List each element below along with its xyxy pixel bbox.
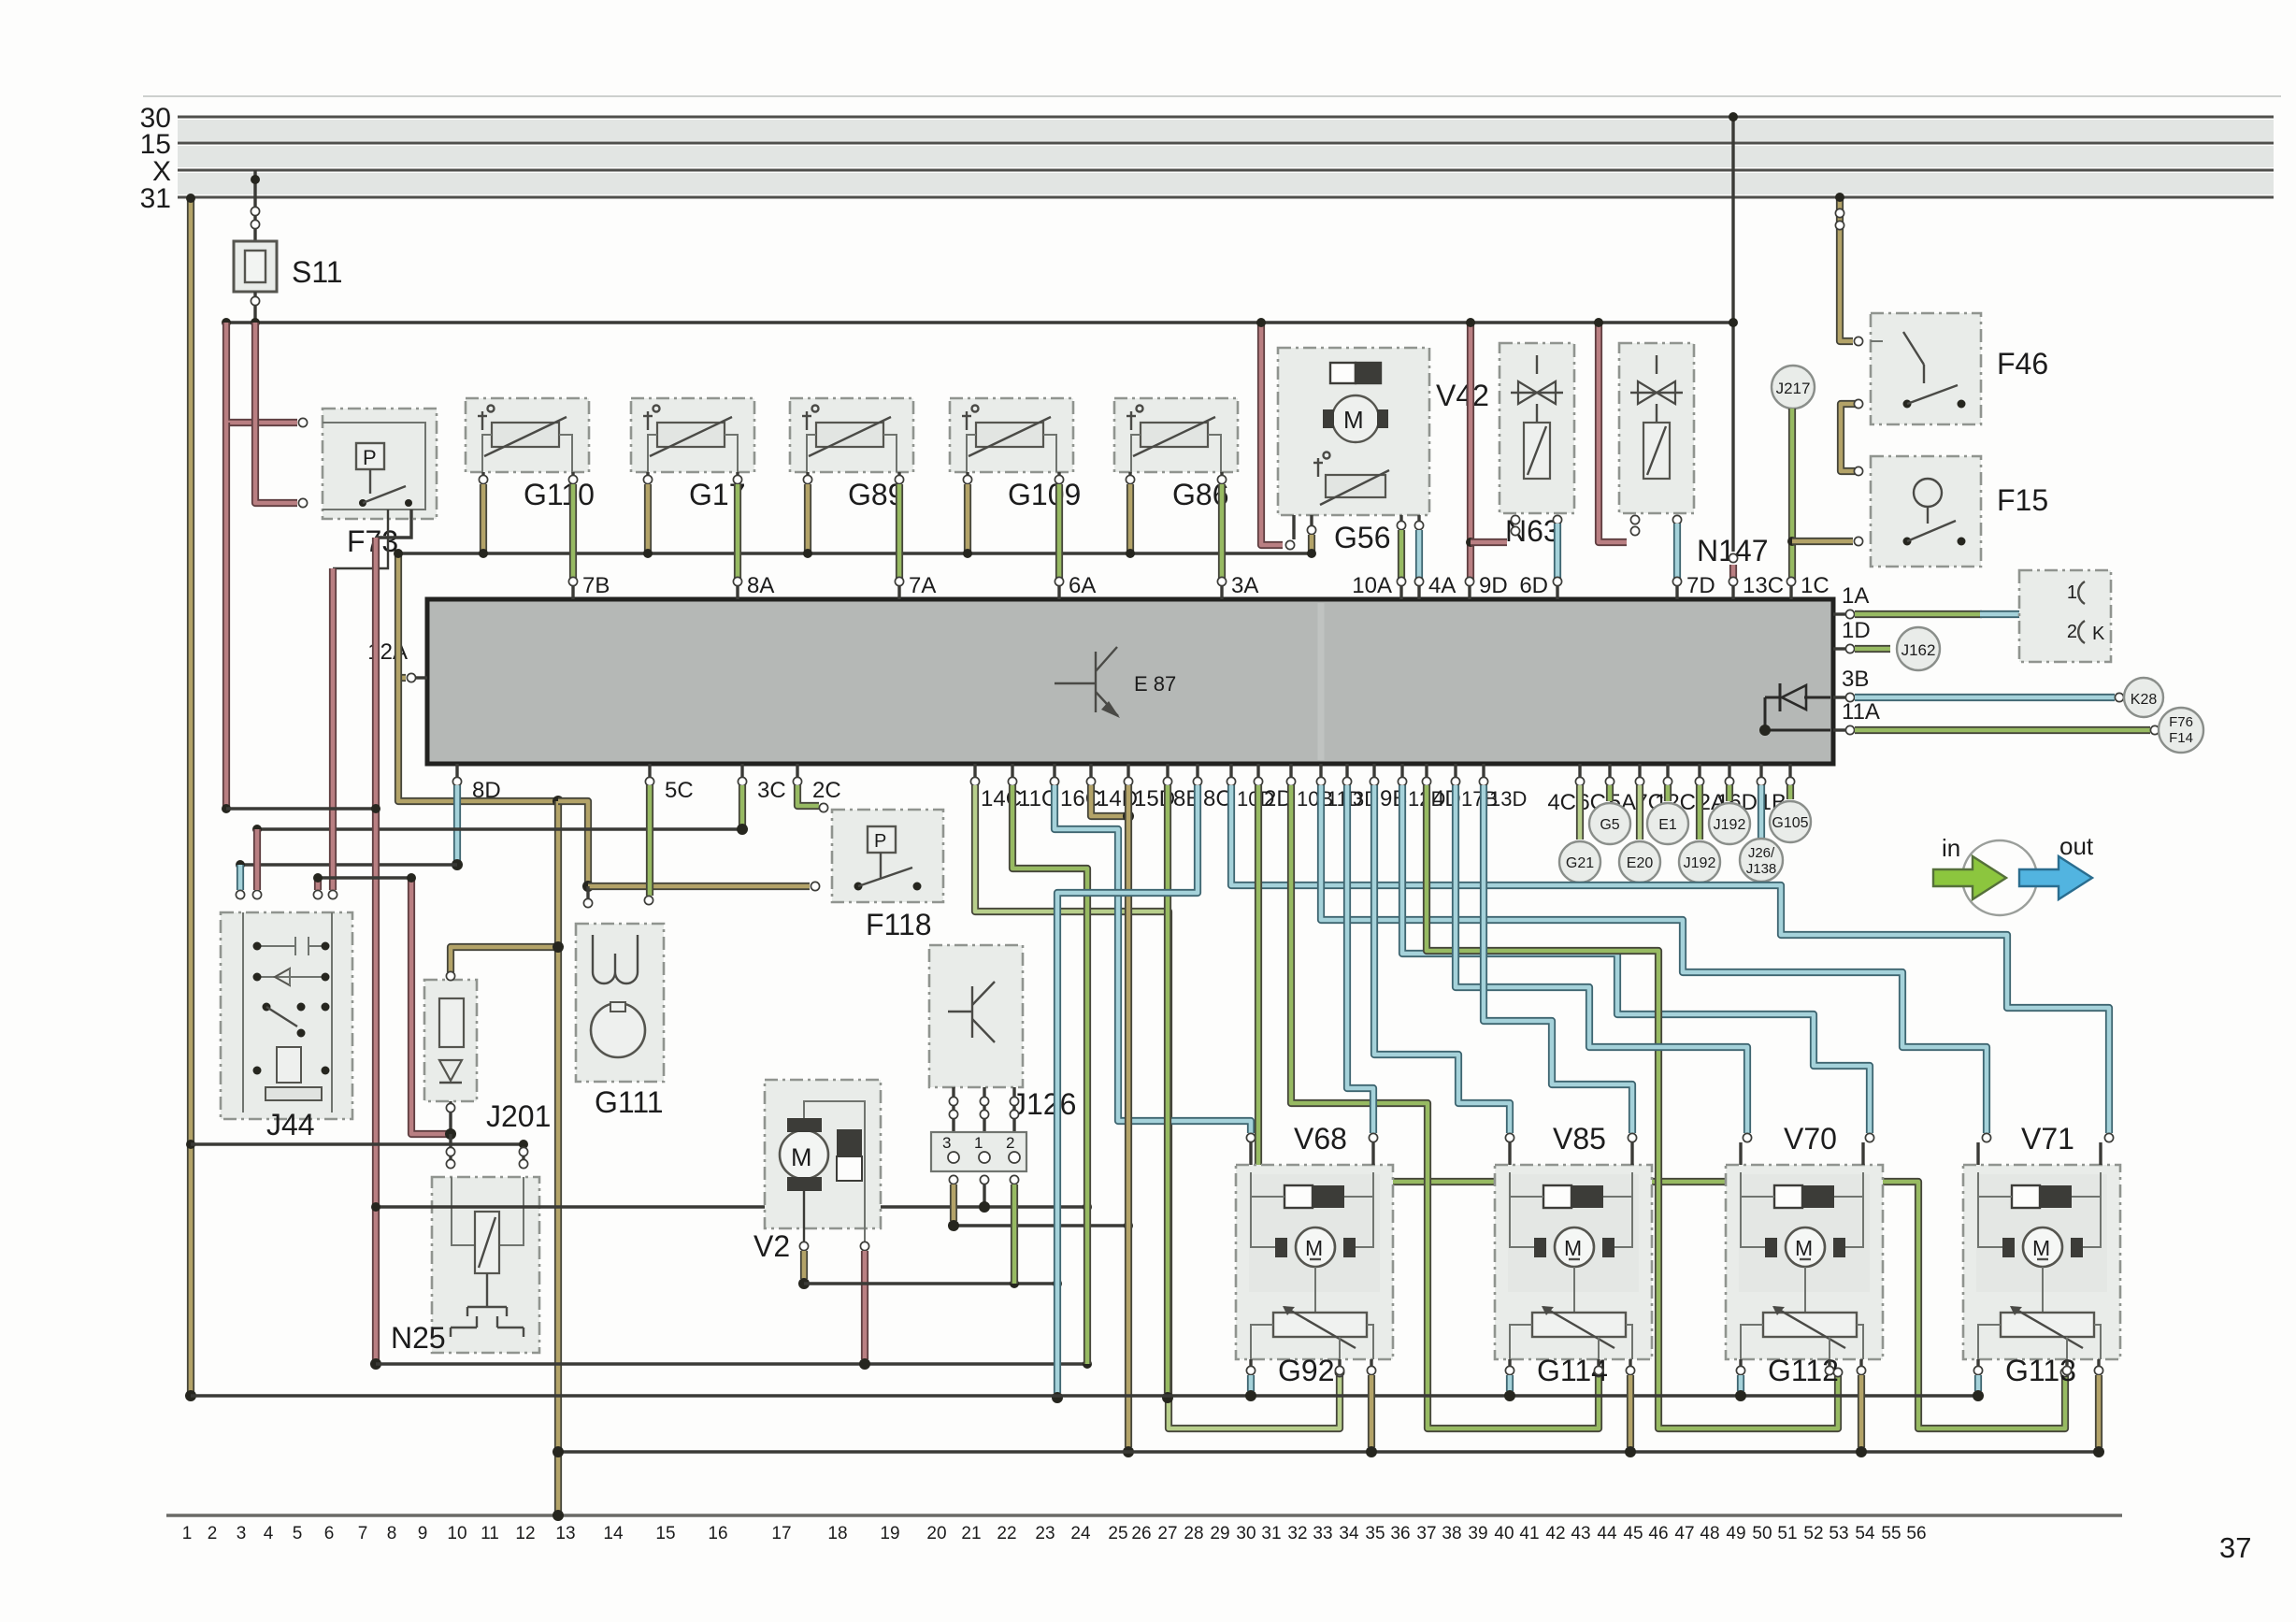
svg-text:19: 19	[880, 1524, 899, 1543]
wire 8C cyan down-left-down to rail1	[1057, 785, 1198, 1393]
svg-text:7D: 7D	[1686, 573, 1715, 598]
wire N63 right cyan to 6D	[1553, 515, 1561, 524]
wire V2 right maroon to y1459	[860, 1242, 868, 1250]
node 30 bus	[1729, 112, 1738, 122]
node L1 right	[371, 804, 380, 813]
wire red S11 to F73 pin2	[255, 323, 297, 503]
connector plug K box	[2019, 570, 2111, 662]
pin 12D bottom	[1400, 764, 1403, 778]
wire J126-2 green	[1010, 1175, 1018, 1184]
switch F46	[1871, 313, 1981, 424]
svg-text:M: M	[1564, 1236, 1582, 1260]
svg-text:52: 52	[1803, 1524, 1823, 1543]
terminal circle G21	[1576, 785, 1584, 840]
terminal circle G5	[1606, 785, 1614, 801]
wire red to G56 pin1	[1261, 323, 1283, 545]
bus line 15	[178, 142, 2274, 145]
svg-text:S11: S11	[292, 255, 343, 289]
pressure switch F73	[323, 409, 437, 519]
wire maroon to J201/N25	[411, 878, 448, 1134]
svg-text:21: 21	[961, 1524, 981, 1543]
svg-text:9: 9	[418, 1524, 428, 1543]
wire feed line y345	[226, 321, 1733, 323]
svg-text:4: 4	[264, 1524, 274, 1543]
wire 2D green staircase to G113	[1258, 785, 2065, 1428]
svg-text:38: 38	[1442, 1524, 1461, 1543]
terminal circle E1	[1664, 785, 1672, 801]
valve N63	[1500, 343, 1574, 513]
wire 3B cyan to K28	[1855, 694, 2115, 701]
pin 9D top	[1468, 585, 1471, 599]
out arrow blue	[2019, 856, 2092, 899]
control unit E87	[427, 599, 1833, 764]
wire sensor right green	[1057, 472, 1060, 476]
wire red S11node to F73 pin1 and down	[226, 323, 297, 423]
temperature sensor G110	[466, 398, 589, 472]
svg-text:12: 12	[515, 1524, 535, 1543]
svg-text:K28: K28	[2131, 692, 2158, 708]
pin 10B bottom	[1289, 764, 1292, 778]
svg-text:G109: G109	[1008, 478, 1081, 511]
pin 3A top	[1220, 585, 1223, 599]
svg-text:15: 15	[655, 1524, 675, 1543]
svg-text:32: 32	[1287, 1524, 1307, 1543]
node diode 11A	[1759, 725, 1771, 736]
in arrow green	[1933, 856, 2006, 899]
pin 9B bottom	[1372, 764, 1375, 778]
pin 17B bottom	[1454, 764, 1457, 778]
svg-text:53: 53	[1829, 1524, 1848, 1543]
svg-text:1C: 1C	[1801, 573, 1830, 598]
svg-text:54: 54	[1855, 1524, 1875, 1543]
wire 15D tan down to rail2	[1125, 785, 1132, 1447]
relay K28	[2124, 678, 2163, 717]
svg-text:G56: G56	[1334, 521, 1390, 554]
wire 3C green	[739, 785, 746, 825]
svg-text:J162: J162	[1901, 641, 1936, 659]
svg-text:E20: E20	[1627, 855, 1654, 871]
svg-text:28: 28	[1184, 1524, 1203, 1543]
svg-text:4C: 4C	[1547, 790, 1576, 815]
svg-text:F76: F76	[2169, 714, 2193, 730]
wire line L1	[226, 807, 376, 810]
pin 11D bottom	[1319, 764, 1322, 778]
wire G56 right cyan to 4A	[1417, 515, 1420, 522]
bus line X	[178, 169, 2274, 172]
pin 16C bottom	[1053, 764, 1055, 778]
pin 6A top	[1057, 585, 1060, 599]
svg-text:17: 17	[771, 1524, 791, 1543]
relay J44	[221, 912, 352, 1119]
pin 13D bottom	[1482, 764, 1485, 778]
wire maroon J44 pin2	[253, 829, 261, 890]
node L1 left	[222, 804, 231, 813]
flap motor V70 with potentiometer G112	[1726, 1165, 1883, 1359]
bus line 30	[178, 116, 2274, 119]
pin 1B bottom	[1788, 764, 1791, 778]
line y1373 V2/J126-2	[804, 1282, 1057, 1285]
valve N147	[1619, 343, 1694, 513]
wire G92 left cyan stub	[1247, 1375, 1255, 1391]
svg-text:1: 1	[182, 1524, 193, 1543]
wire G113 right tan stub	[2095, 1375, 2102, 1447]
svg-text:47: 47	[1674, 1524, 1694, 1543]
wire 16C cyan to V68 left	[1055, 785, 1251, 1133]
wire sensors ground line y592	[398, 552, 1313, 554]
svg-text:1: 1	[2067, 582, 2077, 603]
svg-text:V70: V70	[1784, 1122, 1837, 1155]
node red N63 branch	[1466, 538, 1475, 547]
pin 1D right	[1833, 647, 1847, 650]
wire red to N63	[1467, 323, 1474, 581]
J44 internals	[257, 937, 325, 955]
pin 10D bottom	[1229, 764, 1232, 778]
line y1311 tan J126-3	[954, 1224, 1128, 1227]
wire G113 left cyan stub	[1974, 1375, 1982, 1391]
wire 11C green down	[1012, 785, 1087, 1364]
rail ground y1495	[191, 1394, 1979, 1397]
svg-text:9D: 9D	[1479, 573, 1508, 598]
svg-text:7: 7	[358, 1524, 368, 1543]
flap motor V85 with potentiometer G114	[1495, 1165, 1652, 1359]
wire V2 left tan to y1373	[803, 1191, 805, 1242]
terminal circle J192	[1726, 785, 1733, 801]
svg-text:G92: G92	[1278, 1354, 1334, 1387]
pin 12A left	[414, 676, 427, 679]
node X/S11	[251, 175, 260, 184]
svg-text:V2: V2	[753, 1229, 790, 1263]
svg-text:6: 6	[324, 1524, 335, 1543]
svg-text:E1: E1	[1658, 817, 1677, 833]
wire 2C green to F118 top	[797, 785, 819, 806]
svg-text:44: 44	[1597, 1524, 1617, 1543]
wire sensor right green	[571, 472, 574, 476]
blower V2	[765, 1080, 881, 1228]
svg-text:J138: J138	[1746, 861, 1777, 877]
wire tan to F118	[588, 883, 810, 890]
wire sensor right green	[897, 472, 900, 476]
svg-text:6D: 6D	[1519, 573, 1548, 598]
controller J126	[929, 945, 1023, 1087]
svg-text:J26/: J26/	[1748, 845, 1775, 861]
svg-text:J217: J217	[1776, 380, 1811, 397]
svg-text:13: 13	[555, 1524, 575, 1543]
svg-text:20: 20	[926, 1524, 946, 1543]
wire cyan stub J44 pin1	[237, 865, 244, 890]
pin 14D bottom	[1089, 764, 1092, 778]
pin 7D top	[1675, 585, 1678, 599]
wire 17B cyan staircase to V70 left	[1456, 785, 1747, 1133]
wire tan to J201 top	[451, 947, 558, 972]
svg-text:J192: J192	[1714, 817, 1746, 833]
wire 8B green down to rail1	[1164, 785, 1171, 1393]
svg-text:25: 25	[1108, 1524, 1127, 1543]
bus band X-31	[178, 173, 2274, 194]
node tan junction 597	[552, 796, 564, 807]
svg-text:F118: F118	[866, 908, 932, 941]
relay N25	[432, 1177, 539, 1353]
wire J126-3 tan	[949, 1175, 957, 1184]
wire S11 to node	[253, 292, 256, 323]
temperature sensor G89	[790, 398, 913, 472]
svg-text:11: 11	[481, 1524, 499, 1543]
svg-text:27: 27	[1157, 1524, 1177, 1543]
wire tan branch to G111/F118	[558, 801, 588, 886]
pin 5C bottom	[648, 764, 651, 778]
in/out rotation symbol	[1962, 840, 2037, 915]
wire line L3 to J44 pin1	[240, 863, 457, 866]
svg-text:18: 18	[827, 1524, 847, 1543]
svg-text:2: 2	[1006, 1134, 1014, 1152]
pin 14C bottom	[973, 764, 976, 778]
svg-text:K: K	[2092, 624, 2105, 644]
svg-text:5C: 5C	[665, 778, 694, 803]
svg-text:33: 33	[1313, 1524, 1332, 1543]
svg-text:13D: 13D	[1489, 787, 1527, 811]
wire 8D cyan down	[453, 785, 461, 865]
svg-text:3A: 3A	[1231, 573, 1258, 598]
svg-text:1A: 1A	[1842, 583, 1869, 609]
wire 12A tan	[398, 674, 406, 682]
wire sensor left tan	[806, 472, 809, 476]
svg-text:V42: V42	[1436, 379, 1489, 412]
wire 14C green staircase to G92	[975, 785, 1340, 1428]
wire 31-bus tan to F46	[1840, 200, 1853, 341]
wire down to N25 pin1	[449, 1134, 452, 1169]
node tan/J44 line	[186, 1140, 195, 1149]
temperature sensor G109	[950, 398, 1073, 472]
node red N63 top	[1466, 318, 1475, 327]
svg-text:M: M	[791, 1143, 812, 1171]
wire F15 lower tan to J217 node	[1792, 538, 1853, 545]
svg-text:5: 5	[293, 1524, 303, 1543]
pin 8D bottom	[455, 764, 458, 778]
temperature sensor G17	[631, 398, 754, 472]
wire 4D green staircase to G112	[1427, 785, 1838, 1428]
pin 6C bottom	[1608, 764, 1611, 778]
pin 8C bottom	[1196, 764, 1198, 778]
svg-text:45: 45	[1623, 1524, 1643, 1543]
svg-text:36: 36	[1390, 1524, 1410, 1543]
fresh air blower V42 with sensor G56	[1278, 348, 1429, 515]
svg-text:F15: F15	[1997, 483, 2048, 517]
wire G114 right tan stub	[1627, 1375, 1634, 1447]
diode inside E87 right	[1782, 685, 1806, 710]
svg-text:N25: N25	[391, 1321, 446, 1355]
wire J217 green to 1C	[1788, 409, 1796, 581]
line J44 to N25 y1224	[191, 1142, 524, 1145]
pin 4D bottom	[1425, 764, 1428, 778]
node 8D line	[452, 859, 463, 870]
wire 1D green to J162	[1855, 645, 1890, 653]
wire N147 right cyan to 7D	[1672, 515, 1681, 524]
svg-text:16: 16	[708, 1524, 727, 1543]
node 31 bus F46	[1835, 193, 1844, 202]
wire G56 right green to 10A	[1399, 515, 1402, 522]
svg-text:26: 26	[1131, 1524, 1151, 1543]
wire F73 out bottom	[376, 510, 411, 538]
sensor G111	[576, 924, 664, 1082]
wire 12D cyan staircase to V70 right	[1402, 785, 1870, 1133]
node tan G111	[582, 881, 594, 892]
relay J217	[1772, 366, 1815, 409]
wire J126-1 to y1291	[980, 1175, 988, 1184]
wire 11A green to F76/F14	[1855, 726, 2150, 734]
svg-text:43: 43	[1571, 1524, 1590, 1543]
pin 2A bottom	[1728, 764, 1730, 778]
pin 16D bottom	[1759, 764, 1762, 778]
pin 11C bottom	[1011, 764, 1013, 778]
node maroon N25	[445, 1128, 456, 1140]
svg-text:V71: V71	[2021, 1122, 2074, 1155]
flap motor V68 with potentiometer G92	[1236, 1165, 1393, 1359]
svg-text:10A: 10A	[1352, 573, 1392, 598]
pin 12C bottom	[1698, 764, 1700, 778]
pin 8B bottom	[1166, 764, 1169, 778]
wire tan bus x594 down	[554, 801, 562, 1515]
wire sensor right green	[736, 472, 739, 476]
node tan J201	[552, 941, 564, 953]
pin 2D bottom	[1256, 764, 1259, 778]
temperature sensor G86	[1114, 398, 1238, 472]
pin 3B right	[1833, 696, 1847, 698]
svg-text:M: M	[1305, 1236, 1323, 1260]
svg-text:13C: 13C	[1743, 573, 1784, 598]
bus band 15-X	[178, 146, 2274, 167]
bus line 31	[178, 196, 2274, 199]
svg-text:M: M	[1795, 1236, 1813, 1260]
svg-text:G111: G111	[595, 1085, 664, 1119]
pin 11A right	[1833, 728, 1847, 731]
svg-text:24: 24	[1070, 1524, 1091, 1543]
svg-text:G110: G110	[524, 478, 595, 511]
svg-text:7A: 7A	[909, 573, 936, 598]
wire 10B green staircase to G114	[1291, 785, 1599, 1428]
node red G56	[1256, 318, 1266, 327]
wire tan stub into G111 left pin	[586, 886, 589, 899]
line y1459	[376, 1362, 1087, 1365]
svg-text:14: 14	[603, 1524, 624, 1543]
svg-text:in: in	[1942, 834, 1960, 862]
svg-text:6A: 6A	[1069, 573, 1096, 598]
svg-text:22: 22	[997, 1524, 1016, 1543]
svg-text:10: 10	[447, 1524, 466, 1543]
wire red drop L1	[372, 538, 380, 1364]
node L3 left	[236, 860, 245, 869]
svg-text:M: M	[2032, 1236, 2050, 1260]
svg-text:30: 30	[1236, 1524, 1256, 1543]
wire G112 left cyan stub	[1737, 1375, 1744, 1391]
wire 3D cyan to V68 right	[1347, 785, 1373, 1133]
node 3C end	[737, 824, 748, 835]
wire 14D tan elbow	[1091, 785, 1125, 816]
transistor symbol inside E87	[1055, 647, 1118, 716]
wire G114 left cyan stub	[1506, 1375, 1514, 1391]
pin 1A right	[1833, 612, 1847, 615]
svg-text:39: 39	[1468, 1524, 1487, 1543]
flap motor V71 with potentiometer G113	[1963, 1165, 2120, 1359]
svg-text:G5: G5	[1600, 817, 1619, 833]
svg-text:29: 29	[1210, 1524, 1229, 1543]
wire F46 to F15 tan loop	[1841, 404, 1857, 471]
svg-text:G21: G21	[1566, 855, 1594, 871]
node J217/F15 tan junction	[1787, 537, 1797, 546]
svg-text:F14: F14	[2169, 730, 2193, 746]
svg-text:3: 3	[942, 1134, 951, 1152]
svg-text:V85: V85	[1553, 1122, 1606, 1155]
pin 2C bottom	[796, 764, 798, 778]
svg-text:46: 46	[1648, 1524, 1668, 1543]
node red N147 top	[1594, 318, 1603, 327]
pin 4C bottom	[1578, 764, 1581, 778]
svg-text:31: 31	[140, 183, 171, 214]
svg-text:40: 40	[1494, 1524, 1514, 1543]
pin 13C top	[1731, 585, 1734, 599]
top frame line	[143, 95, 2281, 97]
svg-text:37: 37	[2219, 1531, 2251, 1564]
svg-text:23: 23	[1035, 1524, 1055, 1543]
node maroon top	[407, 873, 416, 883]
svg-text:1: 1	[974, 1134, 983, 1152]
svg-text:E 87: E 87	[1134, 672, 1176, 696]
switch F76/F14	[2159, 708, 2203, 753]
pin 10A top	[1399, 585, 1402, 599]
terminal circle J192	[1696, 785, 1703, 840]
svg-text:51: 51	[1777, 1524, 1797, 1543]
svg-text:8: 8	[387, 1524, 397, 1543]
relay J162	[1897, 627, 1940, 670]
pin 15D bottom	[1126, 764, 1129, 778]
line y1291 V2/J126	[376, 1205, 1087, 1208]
svg-text:P: P	[874, 831, 886, 852]
svg-text:V68: V68	[1294, 1122, 1347, 1155]
svg-text:F46: F46	[1997, 347, 2048, 380]
node maroon end	[370, 1358, 381, 1370]
wire 11D cyan staircase to V71 left	[1321, 785, 1987, 1133]
node feedline end	[1729, 318, 1738, 327]
wire sensor right green	[1220, 472, 1223, 476]
pressure switch F118	[832, 810, 943, 902]
wire J201 bottom to maroon elbow	[449, 1101, 452, 1134]
wire sensor left tan	[646, 472, 649, 476]
svg-text:11A: 11A	[1842, 699, 1880, 725]
switch F15	[1871, 456, 1981, 567]
node S11 bottom	[251, 318, 260, 327]
svg-text:out: out	[2059, 832, 2094, 860]
relay J201	[424, 980, 477, 1101]
svg-text:16C: 16C	[1060, 786, 1101, 811]
svg-text:J201: J201	[486, 1099, 551, 1133]
svg-text:M: M	[1343, 406, 1364, 434]
wire G112 right tan stub	[1858, 1375, 1865, 1447]
wire 9B cyan staircase to V85 left	[1374, 785, 1510, 1133]
wire 31-bus left tan drop	[187, 200, 194, 1396]
wire 10D cyan staircase to V71 right	[1231, 785, 2109, 1133]
pin 8A top	[736, 585, 739, 599]
svg-text:G105: G105	[1772, 815, 1808, 831]
wire 13D cyan staircase to V85 right	[1484, 785, 1632, 1133]
svg-text:55: 55	[1881, 1524, 1901, 1543]
fuse S11	[234, 241, 277, 292]
wire sensor left tan	[966, 472, 969, 476]
svg-text:3: 3	[237, 1524, 247, 1543]
svg-text:31: 31	[1261, 1524, 1281, 1543]
svg-text:3C: 3C	[757, 778, 786, 803]
node tan sensor-line	[394, 549, 403, 558]
svg-text:41: 41	[1519, 1524, 1539, 1543]
wire N25 pin2 stub	[522, 1144, 524, 1169]
rail bottom y1621	[166, 1514, 2122, 1516]
